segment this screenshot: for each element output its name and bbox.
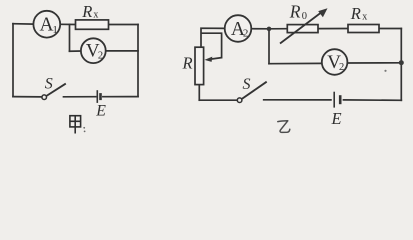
wire bottom-left to switch (乙)	[199, 99, 237, 101]
switch S (乙)	[237, 82, 266, 103]
wire below rheostat to bottom wire	[198, 85, 200, 101]
label 乙	[278, 121, 290, 133]
wire voltmeter branch vertical	[69, 24, 71, 51]
arrow through R0	[280, 8, 328, 43]
wire R0 to Rx	[318, 28, 348, 30]
wire voltmeter branch left horizontal	[70, 50, 82, 52]
wire switch to battery (乙)	[264, 99, 331, 101]
svg-text:E: E	[95, 103, 106, 120]
label 甲	[70, 116, 81, 134]
svg-text:R: R	[289, 1, 301, 21]
wire rheostat top corner to ammeter A2	[201, 28, 225, 47]
comma after 甲	[83, 127, 85, 132]
wire right vertical (甲)	[137, 25, 139, 97]
battery E (乙)	[334, 92, 340, 108]
svg-text:2: 2	[339, 62, 344, 73]
wire ammeter to node junction	[60, 23, 75, 25]
ammeter A2	[225, 15, 252, 42]
label R_x (乙)	[350, 4, 368, 23]
wire top-left to ammeter	[13, 23, 33, 25]
wire right vertical (乙)	[400, 29, 402, 101]
svg-text:S: S	[243, 76, 251, 93]
wire node to rheostat R0	[269, 28, 287, 30]
speckle noise dots	[384, 70, 386, 72]
svg-text:2: 2	[98, 51, 103, 62]
wire voltmeter branch vertical (乙)	[268, 29, 270, 64]
battery E (甲)	[97, 90, 100, 103]
label R_x (甲)	[81, 2, 98, 21]
wire voltmeter branch left horizontal (乙)	[269, 62, 322, 64]
svg-text:2: 2	[243, 28, 249, 40]
wire switch to battery	[64, 96, 96, 98]
wire left vertical (甲)	[12, 24, 14, 97]
svg-text:E: E	[331, 109, 342, 128]
node junction dot (after A2)	[267, 27, 272, 32]
switch S (甲)	[42, 84, 66, 100]
rheostat R0 box	[287, 25, 318, 33]
rheostat R box	[195, 47, 204, 84]
wire voltmeter branch right horizontal	[106, 50, 138, 52]
label R0	[289, 1, 307, 22]
svg-text:x: x	[362, 12, 367, 23]
wire resistor to top-right corner	[109, 24, 139, 26]
voltmeter V2 (甲)	[81, 38, 106, 63]
svg-text:1: 1	[52, 24, 58, 36]
svg-text:0: 0	[302, 11, 307, 22]
wiper arrow into rheostat	[205, 57, 222, 62]
wire wiper branch	[202, 33, 222, 57]
wire voltmeter branch right horizontal (乙)	[347, 62, 401, 64]
svg-text:R: R	[350, 4, 361, 23]
svg-text:x: x	[93, 10, 98, 21]
svg-text:R: R	[182, 54, 193, 73]
resistor R_x box (甲)	[76, 20, 109, 29]
wire A2 to node	[251, 28, 269, 30]
svg-text:S: S	[45, 76, 53, 93]
node junction dot (V branch to right wire)	[399, 60, 404, 65]
wire bottom-left to switch	[13, 96, 42, 98]
svg-text:R: R	[81, 2, 92, 21]
voltmeter V2 (乙)	[322, 49, 348, 75]
resistor Rx box (乙)	[348, 25, 379, 33]
wire Rx to top-right corner	[379, 28, 401, 30]
wire battery to bottom-right corner	[103, 96, 138, 98]
wire battery to bottom-right corner (乙)	[344, 99, 402, 101]
ammeter A1	[33, 11, 60, 38]
